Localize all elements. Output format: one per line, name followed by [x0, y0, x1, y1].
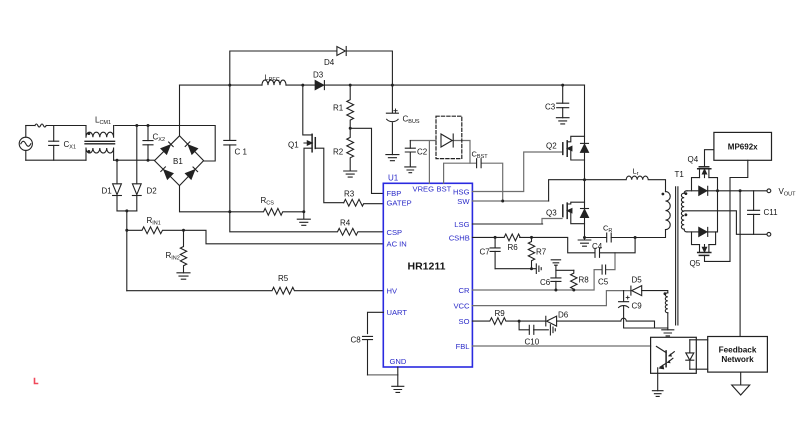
capacitor C1 — [224, 85, 236, 212]
wire Vout to feedback network — [739, 191, 741, 337]
svg-text:R7: R7 — [536, 248, 547, 257]
ground C2 — [405, 167, 416, 173]
wire VCC path — [472, 291, 630, 306]
transistor Q4 — [692, 150, 718, 191]
svg-text:Q1: Q1 — [288, 141, 299, 150]
svg-text:U1: U1 — [388, 174, 399, 183]
wire bridge minus to rail — [180, 186, 230, 212]
chip MP692x — [714, 132, 772, 160]
svg-text:CSHB: CSHB — [449, 233, 470, 242]
svg-text:D5: D5 — [632, 276, 643, 285]
wire aux to ground — [667, 313, 669, 330]
red mark — [35, 379, 38, 384]
feedback network box — [708, 337, 768, 373]
svg-text:C3: C3 — [545, 103, 556, 112]
dashed box boost diode — [436, 116, 462, 158]
diode D5 — [631, 286, 668, 296]
wire opto emitter ground — [657, 373, 659, 390]
resistor R4 — [230, 212, 383, 235]
svg-text:Q2: Q2 — [546, 142, 557, 151]
terminal Vout minus — [767, 232, 771, 236]
transformer core — [676, 187, 678, 325]
svg-text:BST: BST — [437, 184, 452, 193]
node R7 bottom — [530, 267, 533, 270]
resistor R3 — [344, 199, 384, 206]
wire SW riser — [549, 180, 585, 201]
ground RIN2 — [177, 273, 190, 279]
wire C4 to Cr node — [600, 238, 635, 253]
node R7 top — [530, 236, 533, 239]
node R8 bottom — [572, 289, 575, 292]
node CX2 top — [147, 124, 150, 127]
wire UART elbow — [368, 312, 384, 333]
wire secondary bottom — [687, 231, 699, 233]
wire SW path — [472, 200, 548, 202]
ground upward C6 — [551, 260, 560, 278]
svg-text:D3: D3 — [313, 71, 324, 80]
wire center tap to minus rail — [684, 211, 767, 235]
svg-text:C5: C5 — [598, 278, 609, 287]
svg-text:C11: C11 — [764, 208, 779, 217]
wire PFC bus — [180, 84, 585, 86]
svg-text:HSG: HSG — [453, 187, 470, 196]
svg-text:Q5: Q5 — [690, 259, 701, 268]
wire GND pin — [397, 367, 399, 386]
resistor R9 — [472, 318, 519, 325]
ground sideways C7 R7 — [532, 264, 542, 274]
terminal Vout plus — [767, 189, 771, 193]
chassis ground feedback — [732, 372, 750, 395]
capacitor C9 polarized — [619, 291, 668, 328]
svg-text:R6: R6 — [508, 243, 519, 252]
node RIN1 left — [125, 229, 128, 232]
node RIN1 right — [182, 229, 185, 232]
node R1 R2 — [349, 127, 352, 130]
node C1 top — [228, 84, 231, 87]
ground R2 — [344, 171, 357, 177]
svg-text:C7: C7 — [480, 248, 491, 257]
body diode Q2 — [581, 143, 589, 152]
svg-text:C9: C9 — [632, 302, 643, 311]
node C3 top — [561, 84, 564, 87]
capacitor C6 — [551, 278, 561, 290]
capacitor CBST — [477, 159, 482, 168]
wire secondary top — [687, 190, 699, 192]
resistor R5 — [127, 287, 384, 294]
wire FBP tap — [350, 128, 383, 193]
wire half-bridge vertical — [584, 85, 586, 237]
wire HV sense vertical — [126, 211, 128, 291]
svg-text:Q3: Q3 — [546, 209, 557, 218]
svg-text:R3: R3 — [344, 190, 355, 199]
svg-text:GND: GND — [390, 357, 407, 366]
wire MP692x to Q5 gate — [730, 160, 748, 261]
svg-text:GATEP: GATEP — [387, 199, 412, 208]
resistor R6 — [504, 234, 520, 241]
node Q4 right — [716, 189, 719, 192]
wire D4 branch — [230, 51, 393, 85]
node D1D2 — [125, 209, 128, 212]
capacitor CBUS polarized — [386, 85, 398, 155]
wire boost diode cathode to BST — [453, 141, 470, 164]
wire VREG net — [410, 141, 436, 184]
transistor Q5 — [692, 232, 731, 262]
svg-text:CSP: CSP — [387, 228, 403, 237]
wire HSG path — [472, 152, 562, 192]
wire D6 anode with hop — [557, 318, 655, 328]
ground Q1 source — [297, 212, 310, 226]
svg-text:C6: C6 — [540, 278, 551, 287]
fuse F1 — [35, 124, 46, 127]
diode D1 — [113, 160, 122, 211]
svg-text:SO: SO — [459, 317, 470, 326]
wire AC bottom — [26, 159, 154, 161]
resistor RIN2 — [180, 230, 186, 272]
wire C5 right riser — [606, 253, 615, 270]
ground Q3 source — [578, 238, 591, 247]
node D2 top — [135, 124, 138, 127]
wire top rail — [707, 190, 767, 192]
svg-text:D6: D6 — [558, 311, 569, 320]
transistor Q3 — [563, 202, 585, 224]
wire FBL path — [472, 345, 650, 347]
diode D2 — [132, 126, 141, 211]
svg-text:VREG: VREG — [413, 184, 435, 193]
svg-text:FBP: FBP — [387, 189, 402, 198]
ground sideways C10 — [550, 325, 555, 335]
node Vout FB tap — [739, 189, 742, 192]
wire C8 to GND — [368, 374, 398, 376]
svg-text:D4: D4 — [324, 58, 335, 67]
svg-text:Feedback: Feedback — [719, 345, 757, 354]
ground U1 GND — [392, 386, 404, 392]
wire AC top — [26, 125, 35, 127]
resistor R7 — [528, 237, 534, 268]
capacitor C4 — [595, 248, 600, 257]
resistor R1 — [347, 85, 354, 128]
svg-text:SW: SW — [457, 197, 470, 206]
node C6 bottom — [554, 289, 557, 292]
wire bridge plus riser — [179, 85, 181, 136]
capacitor C10 — [519, 321, 548, 334]
svg-text:C8: C8 — [351, 336, 362, 345]
capacitor C7 — [490, 237, 500, 268]
svg-text:C2: C2 — [417, 148, 428, 157]
node C4 tap — [634, 236, 637, 239]
svg-text:UART: UART — [387, 308, 408, 317]
optocoupler U2 — [651, 337, 697, 373]
svg-text:MP692x: MP692x — [728, 143, 758, 152]
wire CSHB path — [472, 237, 594, 252]
transformer T1 primary — [662, 192, 671, 230]
node CX2 bottom — [147, 159, 150, 162]
diode D8 bottom rectifier — [699, 227, 708, 236]
node Cr left — [583, 236, 586, 239]
svg-text:Network: Network — [721, 355, 754, 364]
resistor R2 — [347, 128, 354, 171]
AC source V1 — [19, 126, 32, 161]
svg-text:VCC: VCC — [453, 302, 470, 311]
bridge rectifier B1 — [155, 136, 204, 186]
diode D3 — [315, 81, 324, 90]
svg-text:C4: C4 — [592, 242, 603, 251]
capacitor C8 — [363, 336, 373, 375]
capacitor CX1 — [49, 126, 59, 161]
wire AC top to bridge corner — [46, 126, 215, 162]
diode D6 — [546, 316, 557, 326]
svg-text:CR: CR — [459, 286, 470, 295]
capacitor Cr — [585, 233, 636, 242]
diode D7 top rectifier — [699, 186, 708, 195]
node CBUS top — [391, 84, 394, 87]
wire SO to D6 — [519, 320, 545, 322]
capacitor C2 — [405, 141, 415, 167]
resistor RIN1 — [127, 227, 184, 234]
node SW midpoint — [583, 178, 586, 181]
svg-text:C10: C10 — [525, 338, 540, 347]
wire bottom rectifier riser — [707, 191, 718, 232]
wire LSG path gray jog — [542, 219, 562, 224]
resistor RCS — [230, 208, 304, 215]
inductor Lr — [585, 176, 666, 192]
body diode Q3 — [581, 209, 589, 218]
ground CBUS — [386, 155, 399, 161]
wire opto to feedback box — [690, 340, 708, 369]
capacitor C11 — [748, 191, 760, 235]
op-amp U1 HR1211 controller box — [383, 183, 472, 367]
capacitor C5 — [602, 265, 606, 274]
node D1 top — [116, 159, 119, 162]
svg-text:R8: R8 — [579, 276, 590, 285]
node R1 top — [349, 84, 352, 87]
svg-text:Q4: Q4 — [688, 155, 699, 164]
svg-text:FBL: FBL — [456, 342, 470, 351]
diode D4 — [337, 47, 346, 56]
diode D boost — [441, 134, 453, 147]
svg-text:R9: R9 — [495, 309, 506, 318]
node Q1 drain — [301, 84, 304, 87]
wire CR path — [472, 270, 601, 290]
node SW CBST — [501, 200, 504, 203]
common-mode choke LCM1 — [85, 126, 115, 161]
node C7 top — [494, 236, 497, 239]
node Q1 source — [302, 210, 305, 213]
capacitor CX2 — [143, 126, 153, 161]
wire C7 R7 bottom — [495, 268, 531, 270]
svg-text:R4: R4 — [340, 219, 351, 228]
transistor Q2 — [563, 136, 585, 160]
wire C6 to R8 — [556, 269, 574, 271]
wire BST riser — [444, 163, 476, 183]
resistor R8 — [571, 270, 577, 290]
transformer T1 secondary — [681, 191, 687, 232]
svg-text:HR1211: HR1211 — [408, 261, 446, 273]
node C1 bottom — [228, 210, 231, 213]
transistor Q1 — [303, 85, 344, 212]
node R9 C10 — [518, 320, 521, 323]
wire CBST to SW node — [482, 163, 503, 201]
svg-text:B1: B1 — [173, 157, 183, 166]
svg-text:HV: HV — [387, 287, 398, 296]
wire D1 D2 join — [117, 210, 137, 212]
svg-text:R2: R2 — [333, 148, 344, 157]
wire Cr to primary bottom — [635, 230, 665, 238]
svg-text:R5: R5 — [278, 274, 289, 283]
svg-text:D1: D1 — [102, 187, 113, 196]
ground aux winding — [662, 330, 674, 336]
svg-text:D2: D2 — [147, 187, 158, 196]
svg-text:AC IN: AC IN — [387, 240, 407, 249]
ground C3 — [556, 118, 569, 124]
ground opto emitter — [652, 391, 663, 397]
transformer T1 aux winding — [664, 292, 668, 312]
svg-text:LSG: LSG — [454, 220, 469, 229]
wire ACIN — [184, 230, 384, 244]
svg-text:R1: R1 — [333, 104, 344, 113]
inductor LPFC — [262, 80, 286, 85]
capacitor C3 — [557, 85, 569, 118]
svg-text:T1: T1 — [675, 170, 685, 179]
svg-text:C 1: C 1 — [235, 148, 248, 157]
wire LSG path — [472, 223, 542, 225]
